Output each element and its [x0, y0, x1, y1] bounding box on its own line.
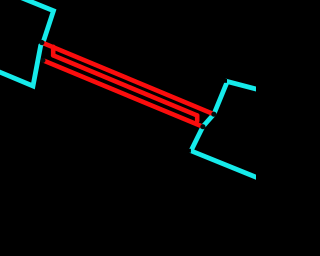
corner notch on J2 bottom corner — [187, 149, 191, 153]
pad 2 (J1 lower) — [40, 58, 45, 63]
pad 1 (J1 upper) — [39, 40, 44, 45]
wire stub S1 (left vertical connector) — [51, 47, 56, 56]
corner notch on J2 top corner — [223, 79, 227, 83]
board background — [0, 0, 256, 256]
wire trace A (top red, pad1 to pad3) — [42, 43, 214, 115]
pad 3 (J2 upper) — [211, 112, 216, 117]
pad 4 (J2 lower) — [200, 124, 205, 129]
wire trace B (middle red) — [53, 55, 197, 115]
footprint J1 outline (left module, cyan) — [0, 0, 54, 86]
wire stub S2 (right vertical connector, B to C) — [195, 116, 200, 121]
footprint J2 outline (right module, cyan) — [191, 82, 259, 179]
wire trace C (bottom red, pad2 to pad4) — [43, 60, 203, 126]
